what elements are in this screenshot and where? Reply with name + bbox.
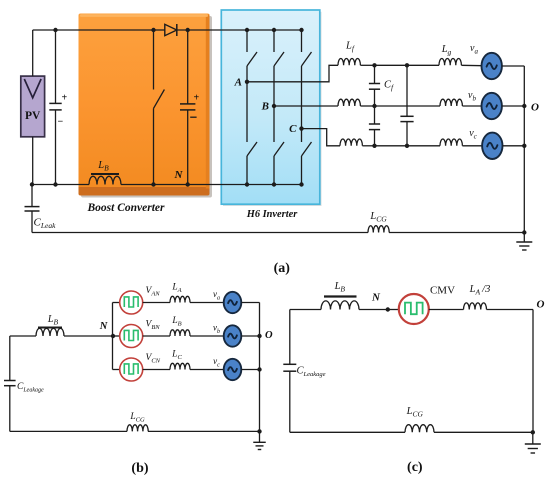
node leg2 top <box>272 28 276 32</box>
svg-text:CMV: CMV <box>430 285 455 297</box>
label CLeak <box>34 217 57 231</box>
wire phase C <box>302 129 341 146</box>
diode D1 <box>154 24 222 36</box>
inductor LA b <box>170 296 224 302</box>
node Cf top <box>372 63 376 67</box>
ground a <box>516 233 532 251</box>
node vc rail <box>522 144 526 148</box>
node PV bottom <box>30 182 34 186</box>
node Cf bottom <box>372 144 376 148</box>
switch S1 top <box>247 30 257 82</box>
node ground c <box>531 430 535 434</box>
node switch top <box>151 28 155 32</box>
svg-text:(c): (c) <box>407 460 423 475</box>
svg-text:N: N <box>174 169 184 181</box>
caption (a) <box>274 261 291 276</box>
source va b <box>224 292 260 313</box>
source vc b <box>224 359 260 380</box>
inductor LCG b <box>127 425 148 432</box>
node A <box>234 76 250 88</box>
node leg1 bottom <box>245 182 249 186</box>
wire phase B <box>274 105 338 107</box>
wire rail2 <box>375 105 441 107</box>
label vb b <box>213 323 220 336</box>
label LB <box>97 160 109 173</box>
switch S4 bottom <box>247 82 257 185</box>
capacitor Cdc <box>180 30 200 185</box>
node switch bottom <box>151 182 155 186</box>
svg-text:N: N <box>371 292 381 304</box>
wire row3 b left <box>113 369 120 371</box>
inductor Lf3 <box>340 139 375 146</box>
H6 inverter box <box>221 10 321 206</box>
inductor LC b <box>170 363 224 369</box>
source VBN <box>120 325 143 348</box>
node B <box>261 101 277 113</box>
label H6 Inverter <box>246 209 298 220</box>
wire bottom <box>32 232 524 234</box>
wire row1 b left <box>113 302 120 304</box>
inductor LB <box>89 174 121 185</box>
svg-text:(a): (a) <box>274 261 291 276</box>
svg-text:N: N <box>99 321 108 332</box>
source vb <box>482 93 525 119</box>
svg-text:(b): (b) <box>131 461 148 476</box>
node input cap bottom <box>53 182 57 186</box>
inductor LB b <box>170 330 224 336</box>
source VAN <box>120 291 143 314</box>
inductor Lf2 <box>338 99 375 106</box>
label Boost Converter <box>87 202 166 214</box>
svg-text:H6 Inverter: H6 Inverter <box>246 209 298 220</box>
svg-text:O: O <box>265 330 273 341</box>
node C <box>289 123 304 135</box>
svg-text:A: A <box>234 76 242 88</box>
capacitor CLeakage c <box>283 310 296 433</box>
node N <box>174 169 190 187</box>
wire top rail <box>56 29 154 31</box>
label VCN <box>146 353 161 365</box>
label va b <box>213 289 220 302</box>
label CLeakage b <box>17 382 44 394</box>
svg-text:LA /3: LA /3 <box>469 284 491 297</box>
node Cf mid <box>372 104 376 108</box>
svg-text:+: + <box>194 93 200 104</box>
label Lf <box>345 41 355 54</box>
inductor Lf1 <box>338 58 375 65</box>
capacitor bank <box>400 65 413 146</box>
switch S6 bottom <box>302 129 312 185</box>
label CMV <box>430 285 455 297</box>
source vb b <box>224 325 260 346</box>
wire PV bottom <box>32 137 34 185</box>
wire right rail b <box>259 303 261 432</box>
inductor Lg2 <box>440 99 483 106</box>
wire N to CMV <box>388 309 399 311</box>
inductor LCG c <box>405 425 434 433</box>
label O c <box>537 299 545 311</box>
switch S2 top <box>274 30 284 106</box>
capacitor CLeakage b <box>4 336 16 431</box>
wire row2 b left <box>113 335 120 337</box>
source VCN <box>120 358 143 381</box>
ground c <box>525 432 541 453</box>
svg-text:B: B <box>261 101 269 113</box>
label LA b <box>171 283 181 295</box>
source CMV <box>399 294 429 324</box>
label VBN <box>146 320 161 332</box>
inductor Lg1 <box>439 58 482 65</box>
node O b <box>257 330 273 341</box>
svg-text:O: O <box>537 299 545 311</box>
node row3 b <box>257 367 261 371</box>
node ground b <box>257 429 261 433</box>
wire right rail <box>523 66 525 233</box>
wire bottom b <box>10 430 260 432</box>
label CLeakage c <box>297 366 326 379</box>
capacitor Cf2 <box>369 106 380 146</box>
svg-text:O: O <box>531 102 539 114</box>
switch S3 top <box>302 30 312 129</box>
node leg2 bottom <box>272 182 276 186</box>
caption (c) <box>407 460 423 475</box>
switch S5 bottom <box>274 106 284 185</box>
wire H6 top bus <box>221 29 301 31</box>
PV module PV <box>21 76 45 137</box>
svg-text:C: C <box>289 123 297 135</box>
node N b <box>99 321 115 338</box>
capacitor input <box>49 30 67 185</box>
node bank top <box>405 63 409 67</box>
node O <box>522 102 539 114</box>
label va <box>470 43 478 56</box>
label vc <box>469 128 477 141</box>
wire row2 b mid <box>143 335 170 337</box>
inductor LB b <box>10 328 113 337</box>
label LCG b <box>129 412 145 424</box>
node leg3 top <box>299 28 303 32</box>
wire row1 b mid <box>143 302 170 304</box>
node leg1 top <box>245 28 249 32</box>
switch Q1 <box>154 30 165 185</box>
svg-text:+: + <box>62 93 68 104</box>
label LB b <box>47 314 59 327</box>
label LB b <box>171 316 181 328</box>
node ground a <box>522 230 526 234</box>
inductor LB c <box>290 297 388 310</box>
label LC b <box>171 350 182 362</box>
label Lg <box>441 44 452 57</box>
wire PV top <box>33 30 56 76</box>
svg-text:−: − <box>58 117 64 128</box>
wire right rail c <box>532 310 534 433</box>
label LA3 <box>469 284 491 297</box>
ground b <box>253 431 266 449</box>
label VAN <box>146 286 161 298</box>
svg-text:Boost Converter: Boost Converter <box>87 202 166 214</box>
inductor LCG a <box>368 226 389 233</box>
node diode out <box>186 28 190 32</box>
wire phase A <box>247 65 338 82</box>
wire CMV to LA3 <box>429 309 464 311</box>
node leg3 bottom <box>299 182 303 186</box>
source va <box>482 53 525 79</box>
svg-text:PV: PV <box>25 110 41 122</box>
wire rail3 <box>375 145 441 147</box>
wire rail1 <box>375 64 440 66</box>
wire branch b <box>112 303 114 370</box>
wire bottom dc rail <box>32 184 302 186</box>
caption (b) <box>131 461 148 476</box>
node N c <box>371 292 390 312</box>
label LCG c <box>406 406 424 419</box>
node bank bottom <box>405 144 409 148</box>
label Cf <box>384 80 394 93</box>
wire row3 b mid <box>143 369 170 371</box>
inductor LA3 <box>464 303 534 310</box>
inductor Lg3 <box>440 139 483 146</box>
label vb <box>468 90 476 103</box>
label LB c <box>334 281 346 294</box>
label LCG a <box>369 211 387 224</box>
label vc b <box>213 356 220 369</box>
wire bottom c <box>290 431 533 433</box>
node input cap top <box>53 28 57 32</box>
source vc <box>482 133 524 159</box>
capacitor Cf1 <box>369 65 380 106</box>
boost converter box <box>79 14 213 198</box>
capacitor CLeak <box>25 185 40 233</box>
